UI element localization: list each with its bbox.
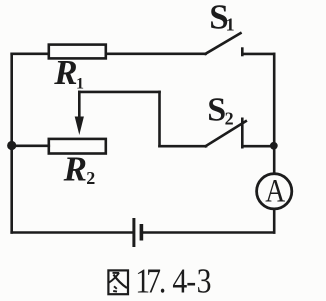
svg-text:4: 4 <box>172 263 187 301</box>
wire left rail vertical <box>10 54 13 233</box>
wire junction to ammeter <box>273 146 276 174</box>
svg-text:R: R <box>63 149 87 188</box>
wire junction to R2 <box>12 145 49 148</box>
junction node right <box>270 142 278 150</box>
svg-text:2: 2 <box>86 168 95 188</box>
svg-text:.: . <box>159 263 166 301</box>
caption hanzi TU (drawn) <box>108 270 128 294</box>
junction node left <box>7 141 16 150</box>
switch S2 contact <box>241 119 244 147</box>
battery long plate <box>132 218 135 247</box>
switch S1 lever <box>206 33 241 54</box>
resistor R2 <box>49 139 106 154</box>
switch S2 lever <box>206 121 246 146</box>
ammeter U1 circle <box>257 174 292 209</box>
svg-text:1: 1 <box>76 75 84 92</box>
wire right rail upper vertical <box>273 54 276 146</box>
wire rheostat slider horizontal <box>79 91 159 94</box>
wire to S2 <box>160 145 207 148</box>
wire top-left horizontal <box>12 52 49 55</box>
ammeter letter A <box>265 172 285 209</box>
wire R1 to S1 <box>106 52 206 55</box>
wire S2 to junction <box>242 145 273 148</box>
rheostat arrow shaft <box>78 92 81 119</box>
wire slider branch vertical <box>158 92 161 146</box>
switch S1 contact stub <box>241 49 244 55</box>
svg-text:R: R <box>53 53 77 92</box>
svg-text:-: - <box>186 263 196 301</box>
wire S1 to right rail <box>242 53 274 56</box>
svg-text:A: A <box>265 172 285 209</box>
rheostat arrow head <box>75 117 84 136</box>
wire right rail lower vertical <box>273 209 276 233</box>
svg-text:S: S <box>207 91 226 128</box>
wire battery to right rail bottom <box>141 231 274 234</box>
battery short plate <box>140 224 144 241</box>
svg-text:3: 3 <box>197 263 212 301</box>
svg-text:2: 2 <box>225 108 234 128</box>
wire bottom left to battery <box>12 231 134 234</box>
svg-text:1: 1 <box>226 15 235 35</box>
resistor R1 <box>49 45 106 59</box>
caption text 17.4-3 <box>135 263 211 301</box>
